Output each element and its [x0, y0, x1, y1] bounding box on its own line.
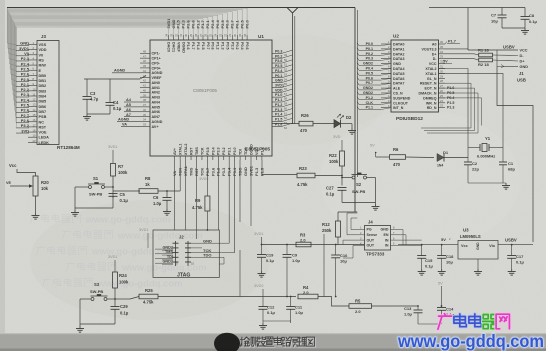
wire J4 column down: [323, 234, 325, 297]
svg-text:D+: D+: [432, 52, 437, 56]
svg-text:10µ: 10µ: [491, 19, 498, 24]
svg-text:C9: C9: [292, 253, 298, 258]
resistor R5 2.0: [349, 299, 418, 315]
svg-text:CS_N: CS_N: [393, 92, 403, 96]
svg-text:100k: 100k: [118, 170, 128, 175]
svg-text:P0.7: P0.7: [206, 42, 210, 50]
capacitor C2 22p: [464, 161, 479, 183]
svg-text:NC: NC: [39, 120, 45, 124]
connector J4 TPS7333: [357, 220, 398, 257]
wire XTAL1 to crystal: [439, 73, 504, 162]
svg-text:VSS: VSS: [39, 43, 47, 47]
resistor R20 10k potentiometer: [6, 176, 49, 219]
svg-text:P0.5: P0.5: [366, 71, 373, 75]
capacitor C4 0.1u: [106, 79, 122, 114]
U1 bottom pins: [172, 144, 264, 176]
svg-text:A5: A5: [126, 103, 131, 107]
wire J4 right to 5V rail: [398, 230, 422, 246]
connector J1 USB: [504, 49, 528, 83]
svg-text:P1.2: P1.2: [275, 103, 282, 107]
svg-text:1.0µ: 1.0µ: [292, 258, 301, 263]
capacitor C8 0.1u: [521, 8, 538, 29]
svg-text:Y1: Y1: [485, 136, 491, 141]
svg-text:C13: C13: [404, 306, 412, 311]
svg-text:Vcc: Vcc: [9, 163, 17, 168]
svg-text:GND: GND: [393, 62, 401, 66]
wire VCC row: [468, 49, 518, 51]
svg-text:AV+: AV+: [173, 148, 177, 155]
svg-text:A0: A0: [432, 43, 437, 47]
svg-text:P2.6: P2.6: [275, 59, 282, 63]
capacitor C11 1.0u: [286, 297, 303, 324]
svg-text:P1.5: P1.5: [201, 42, 205, 50]
svg-text:IN: IN: [385, 244, 389, 248]
svg-text:P1.3: P1.3: [260, 147, 264, 155]
wire top bus: [7, 7, 355, 9]
capacitor C19 0.1u: [257, 253, 275, 278]
caption bar: [0, 334, 546, 351]
svg-text:A6: A6: [126, 108, 131, 112]
node AGND and VA: [117, 117, 140, 126]
regulator U3 LM1117: [458, 228, 498, 260]
svg-text:AV+: AV+: [152, 125, 159, 129]
svg-text:P0.4: P0.4: [240, 42, 244, 51]
svg-text:0.1µ: 0.1µ: [425, 264, 434, 269]
capacitor C3 4.7u: [83, 79, 99, 114]
svg-text:ALE: ALE: [393, 87, 401, 91]
svg-text:250k: 250k: [322, 228, 332, 233]
svg-text:USBV: USBV: [505, 238, 517, 243]
svg-text:S1: S1: [93, 176, 99, 181]
svg-text:10k: 10k: [41, 186, 49, 191]
svg-text:P3.5: P3.5: [206, 147, 210, 155]
svg-text:www.go-gddq.com: www.go-gddq.com: [85, 215, 171, 226]
svg-text:XTAL2: XTAL2: [425, 67, 436, 71]
svg-text:AIN5: AIN5: [152, 105, 160, 109]
wire bus vertical to U2: [355, 8, 357, 213]
svg-text:6.000MHz: 6.000MHz: [477, 154, 495, 159]
svg-text:JTAG: JTAG: [177, 273, 190, 279]
svg-text:1.0µ: 1.0µ: [404, 312, 413, 317]
svg-text:P1.3: P1.3: [275, 108, 282, 112]
svg-text:USBV: USBV: [503, 45, 515, 50]
svg-text:R25: R25: [145, 288, 153, 293]
svg-text:GND: GND: [381, 228, 389, 232]
svg-text:DATA5: DATA5: [393, 72, 404, 76]
svg-text:D+: D+: [520, 60, 526, 64]
svg-text:VOUT3.3: VOUT3.3: [422, 47, 437, 51]
svg-text:DAC1: DAC1: [172, 42, 176, 52]
svg-text:DATA1: DATA1: [393, 47, 404, 51]
svg-text:VA: VA: [122, 122, 127, 126]
J2 left pin wires: [155, 245, 178, 265]
wire VOUT3.3 up: [445, 48, 468, 50]
svg-text:P0.6: P0.6: [245, 42, 249, 50]
svg-text:XTAL2: XTAL2: [184, 144, 188, 155]
svg-text:DATA4: DATA4: [393, 67, 404, 71]
svg-text:C12: C12: [267, 305, 275, 310]
svg-text:XTAL1: XTAL1: [425, 72, 436, 76]
svg-text:P0.6: P0.6: [211, 42, 215, 50]
svg-text:www.go-gddq.com: www.go-gddq.com: [117, 231, 203, 242]
svg-text:VCC: VCC: [429, 62, 437, 66]
svg-text:5V: 5V: [441, 237, 446, 242]
capacitor C13 1.0u: [404, 306, 423, 324]
U1 left pins: [140, 50, 163, 129]
svg-text:TCK: TCK: [199, 168, 204, 176]
svg-text:VE: VE: [6, 181, 12, 185]
node 3VD1 above R7: [108, 145, 118, 163]
svg-text:CP1+: CP1+: [152, 57, 161, 61]
node 3VD1 left of JTAG: [139, 228, 149, 248]
svg-text:C17: C17: [516, 254, 524, 259]
wire JTAG right wrap: [216, 243, 235, 264]
svg-text:AGND: AGND: [114, 69, 125, 73]
svg-text:P1.5: P1.5: [275, 118, 282, 122]
svg-text:R23: R23: [299, 166, 307, 171]
U1 top pins: [166, 18, 250, 53]
U2 left pins: [357, 40, 411, 110]
capacitor C9 1.0u: [283, 245, 301, 297]
wire JTAG columns down right: [218, 160, 262, 253]
capacitor C18 10u: [437, 245, 454, 275]
svg-text:4.7µ: 4.7µ: [90, 97, 99, 102]
node 5V above C14: [438, 282, 443, 308]
svg-text:GND: GND: [520, 65, 529, 69]
svg-text:P3.3: P3.3: [217, 147, 221, 155]
svg-text:1N4: 1N4: [437, 164, 443, 168]
capacitor C1 68p: [499, 161, 515, 183]
svg-text:GND: GND: [275, 79, 283, 83]
svg-text:A7: A7: [126, 113, 131, 117]
svg-text:P1.3: P1.3: [254, 167, 259, 176]
svg-text:DATA0: DATA0: [393, 43, 404, 47]
node 5V R6: [370, 144, 390, 158]
svg-text:P3.2: P3.2: [222, 147, 226, 155]
caption text: [240, 337, 315, 347]
svg-text:C8: C8: [529, 13, 535, 18]
svg-text:TDO: TDO: [203, 253, 211, 258]
svg-text:P0.4: P0.4: [366, 67, 373, 71]
svg-text:XTAL1: XTAL1: [179, 144, 183, 155]
svg-text:10: 10: [191, 262, 195, 266]
svg-text:P1.6: P1.6: [275, 122, 282, 126]
svg-text:PG: PG: [367, 228, 372, 232]
wire R8 to RST: [158, 190, 180, 192]
ground C7 C8: [502, 28, 529, 34]
wire rail to R5: [318, 297, 349, 307]
svg-text:RST: RST: [39, 125, 47, 129]
resistor R25 4.75k: [115, 288, 158, 305]
svg-text:P1.1: P1.1: [275, 98, 282, 102]
wire XTAL2 to crystal: [439, 69, 469, 163]
caption blob: [214, 333, 240, 351]
svg-text:P1.6: P1.6: [186, 42, 190, 50]
resistor R26 470: [299, 113, 334, 133]
svg-text:J2: J2: [179, 235, 184, 240]
svg-text:R24: R24: [119, 273, 127, 278]
svg-text:C8051F005: C8051F005: [193, 88, 217, 93]
svg-text:DATA7: DATA7: [393, 82, 404, 86]
node 3VD2 above C12: [254, 284, 264, 307]
svg-text:Vcc: Vcc: [461, 244, 468, 248]
svg-text:5V: 5V: [370, 144, 375, 148]
svg-text:TDI: TDI: [239, 149, 243, 155]
svg-text:RT12864M: RT12864M: [57, 145, 80, 150]
wire RST column to R8 junction: [179, 160, 181, 191]
svg-text:TCK: TCK: [200, 147, 204, 155]
svg-text:1.0µ: 1.0µ: [295, 310, 304, 315]
svg-text:4.75k: 4.75k: [143, 300, 154, 305]
svg-text:C29: C29: [120, 304, 128, 309]
resistor R2 18: [445, 58, 518, 67]
svg-text:P1.0: P1.0: [275, 93, 282, 97]
svg-text:SW-PB: SW-PB: [89, 192, 102, 197]
svg-text:U3: U3: [463, 228, 469, 233]
svg-text:PSB: PSB: [39, 115, 47, 119]
svg-text:U1: U1: [258, 34, 264, 39]
svg-text:J3: J3: [41, 34, 46, 39]
wire U2 misc pins: [421, 83, 482, 133]
nodes A4 A5 A6 A7: [124, 98, 140, 117]
svg-text:C3: C3: [90, 91, 96, 96]
svg-text:INT_N: INT_N: [393, 106, 404, 110]
wire to R26: [272, 123, 299, 125]
svg-text:TDI: TDI: [167, 255, 173, 259]
capacitor C17 0.1u: [507, 245, 524, 275]
node AGND wire: [112, 69, 140, 73]
svg-text:P1.3: P1.3: [221, 42, 225, 50]
svg-text:GND2: GND2: [363, 62, 373, 66]
svg-text:P1.7: P1.7: [448, 40, 456, 44]
svg-text:C14: C14: [446, 307, 454, 312]
svg-text:DATA2: DATA2: [393, 52, 404, 56]
svg-text:PDIUSBD12: PDIUSBD12: [396, 116, 423, 122]
resistor R23 4.75k: [297, 166, 342, 187]
node P1.7 at U2 A0: [445, 40, 460, 45]
svg-text:R9: R9: [195, 198, 201, 203]
resistor R12 250k: [322, 221, 341, 245]
svg-text:P3.3: P3.3: [221, 167, 226, 176]
svg-text:RD_N: RD_N: [427, 106, 437, 110]
svg-text:P1.7: P1.7: [191, 42, 195, 50]
svg-text:P1.1: P1.1: [366, 106, 373, 110]
svg-text:AGND: AGND: [152, 120, 163, 124]
svg-text:S3: S3: [94, 282, 100, 287]
svg-text:RS: RS: [39, 58, 45, 62]
svg-text:AIN1: AIN1: [152, 86, 160, 90]
svg-text:DB1: DB1: [39, 79, 47, 83]
svg-text:CLKOUT: CLKOUT: [393, 101, 409, 105]
svg-text:RST: RST: [189, 147, 193, 155]
svg-text:100k: 100k: [329, 159, 339, 164]
node junction dots: [112, 175, 513, 307]
svg-text:R2 18: R2 18: [478, 62, 489, 67]
svg-text:VDD: VDD: [255, 147, 259, 155]
svg-text:P1.3: P1.3: [447, 106, 454, 110]
U2 right pins: [419, 40, 445, 110]
svg-text:22p: 22p: [472, 167, 479, 172]
svg-text:R22: R22: [329, 153, 337, 158]
svg-text:4.75k: 4.75k: [297, 182, 308, 187]
svg-text:TMS: TMS: [165, 250, 173, 254]
svg-text:P0.6: P0.6: [366, 76, 373, 80]
decorative ghost watermark (not labelled further): [31, 214, 207, 289]
svg-text:GND2: GND2: [162, 245, 173, 249]
resistor R1 18: [445, 48, 518, 57]
wire bus vertical to R26: [293, 13, 295, 124]
ground S2: [342, 178, 380, 211]
node USBV at U3 out: [498, 238, 533, 245]
wire 3VD1 rail right: [262, 244, 365, 246]
svg-text:AIN3: AIN3: [152, 96, 160, 100]
wire from U1 to R23: [262, 174, 297, 176]
ground crystal: [468, 183, 510, 189]
svg-text:P0.0: P0.0: [244, 19, 249, 28]
svg-text:LEDA: LEDA: [39, 136, 50, 140]
connector J3 RT12864M: [16, 34, 80, 150]
svg-text:VREF: VREF: [152, 76, 163, 80]
svg-text:3VD1: 3VD1: [108, 145, 118, 149]
U1 right pins: [272, 49, 293, 130]
wire JTAG to rail: [239, 250, 241, 297]
svg-text:LM0950LS: LM0950LS: [460, 234, 481, 239]
svg-text:DGND: DGND: [181, 42, 185, 53]
svg-text:DB7: DB7: [39, 110, 47, 114]
svg-text:R/W: R/W: [39, 64, 47, 68]
svg-text:SW-PB: SW-PB: [90, 289, 103, 294]
svg-text:CP1-: CP1-: [152, 52, 161, 56]
svg-text:DATA3: DATA3: [393, 57, 404, 61]
wire C13 C14 ground rail: [418, 306, 442, 324]
resistor R3 2.0: [296, 233, 311, 247]
svg-text:AIN0: AIN0: [152, 81, 160, 85]
svg-text:C5: C5: [120, 192, 126, 197]
svg-text:P0.2: P0.2: [235, 42, 239, 50]
svg-text:P1.2: P1.2: [366, 96, 373, 100]
svg-text:100k: 100k: [119, 280, 129, 285]
svg-text:P3.1: P3.1: [228, 147, 232, 155]
node 3VD1 above C19: [254, 232, 264, 255]
resistor R8 1k: [139, 176, 158, 193]
svg-text:3VD1: 3VD1: [108, 255, 118, 259]
svg-text:3VD1: 3VD1: [275, 83, 284, 87]
svg-text:GND2: GND2: [162, 260, 173, 264]
ground C3 C4: [83, 114, 110, 120]
wire R25 to R4 rail: [158, 296, 296, 298]
svg-text:P0.3: P0.3: [275, 49, 282, 53]
svg-text:www.go-gddq.com: www.go-gddq.com: [397, 331, 544, 351]
svg-text:R7: R7: [118, 164, 124, 169]
svg-text:P2.4: P2.4: [275, 69, 282, 73]
wire 5V into U3: [398, 237, 458, 245]
svg-text:1k: 1k: [145, 182, 150, 187]
capacitor C14 0.1u: [418, 306, 455, 324]
wire VREF to caps: [84, 76, 146, 80]
svg-text:P1.5: P1.5: [447, 101, 454, 105]
svg-text:DB6: DB6: [39, 105, 47, 109]
capacitor C5 0.1u: [109, 192, 129, 208]
capacitor C15 0.1u: [417, 245, 433, 275]
svg-text:OUT: OUT: [367, 244, 375, 248]
svg-text:0.1µ: 0.1µ: [113, 106, 122, 111]
svg-text:DGND: DGND: [249, 144, 253, 155]
svg-text:R1 18: R1 18: [478, 48, 489, 53]
svg-text:P0.5: P0.5: [447, 91, 454, 95]
svg-text:VREF: VREF: [176, 42, 180, 53]
svg-text:AIN6: AIN6: [152, 110, 160, 114]
svg-text:5V: 5V: [438, 282, 443, 286]
svg-text:S2: S2: [356, 182, 362, 187]
svg-text:0.1µ: 0.1µ: [120, 198, 129, 203]
svg-text:0.1µ: 0.1µ: [267, 310, 276, 315]
svg-text:IN: IN: [385, 238, 389, 242]
capacitor C29 0.1u: [111, 299, 129, 324]
wire bus to R12: [338, 212, 357, 221]
svg-text:TPS7333: TPS7333: [366, 252, 385, 257]
svg-text:P0.1: P0.1: [275, 74, 282, 78]
svg-text:C6: C6: [153, 195, 159, 200]
svg-text:VDD: VDD: [275, 88, 283, 92]
svg-text:68p: 68p: [508, 167, 515, 172]
svg-text:0.1µ: 0.1µ: [266, 258, 275, 263]
connector J2 JTAG outer wiring: [153, 230, 219, 277]
svg-text:SW-PB: SW-PB: [352, 189, 365, 194]
svg-text:AIN4: AIN4: [152, 100, 161, 104]
svg-text:J1: J1: [519, 71, 524, 76]
svg-text:R5: R5: [355, 299, 361, 304]
svg-text:P1.4: P1.4: [196, 42, 200, 51]
svg-text:GND: GND: [243, 167, 248, 176]
svg-text:P1.4: P1.4: [275, 113, 282, 117]
svg-text:C11: C11: [295, 305, 303, 310]
svg-text:LEDK: LEDK: [39, 141, 50, 145]
svg-text:www.go-gddq.com: www.go-gddq.com: [97, 279, 183, 290]
svg-text:3VD1: 3VD1: [254, 232, 264, 236]
svg-text:0.1µ: 0.1µ: [516, 260, 525, 265]
svg-text:EN: EN: [384, 233, 389, 237]
node Vcc: [9, 163, 36, 176]
svg-text:0.1µ: 0.1µ: [120, 311, 129, 316]
resistor R7 100k: [111, 164, 128, 199]
svg-text:WR_N: WR_N: [426, 101, 437, 105]
diode D1: [437, 150, 468, 168]
svg-text:3VD: 3VD: [21, 128, 29, 133]
svg-text:AGND: AGND: [118, 117, 129, 121]
capacitor C27 0.1u: [326, 186, 347, 203]
wire J1 GND down rail: [497, 50, 533, 242]
svg-text:470: 470: [393, 162, 401, 167]
svg-text:C2: C2: [472, 161, 478, 166]
svg-text:V0: V0: [39, 53, 44, 57]
svg-text:C27: C27: [326, 186, 334, 191]
svg-text:R6: R6: [393, 147, 399, 152]
svg-text:C4: C4: [113, 100, 119, 105]
svg-text:DMACK_N: DMACK_N: [419, 92, 437, 96]
svg-text:R12: R12: [322, 222, 330, 227]
svg-text:P1.2: P1.2: [216, 42, 220, 50]
svg-text:1.0µ: 1.0µ: [153, 201, 162, 206]
svg-text:2.0: 2.0: [300, 238, 306, 243]
IC U1 C8051F005 MCU body: [150, 34, 272, 156]
svg-text:C1: C1: [508, 161, 514, 166]
svg-text:AIN7: AIN7: [152, 115, 160, 119]
node 3VD above R22: [333, 135, 342, 151]
svg-text:P2.3: P2.3: [230, 42, 234, 50]
node 3VD2 above R9: [199, 160, 209, 196]
svg-text:3VD2: 3VD2: [199, 177, 209, 181]
svg-text:P0.2: P0.2: [275, 54, 282, 58]
